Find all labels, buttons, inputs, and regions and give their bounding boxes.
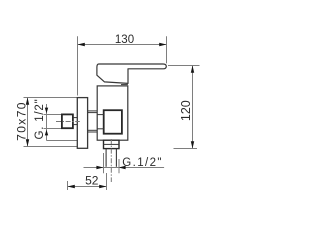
svg-text:120: 120 xyxy=(179,100,193,121)
dimension 52 line xyxy=(68,186,107,188)
dimension 130 arrow right xyxy=(159,43,166,46)
dimension G 1/2 left arrow up xyxy=(45,130,48,136)
inlet axis centerline xyxy=(56,121,80,123)
neck between flange and body bottom lines xyxy=(88,129,97,131)
cartridge inner rectangle xyxy=(104,110,122,134)
inlet square connector xyxy=(62,114,73,128)
wall flange plate xyxy=(77,98,87,149)
label G 1/2 bottom leader line xyxy=(84,167,165,169)
svg-text:70x70: 70x70 xyxy=(14,101,28,141)
handle lever with cartridge cap xyxy=(97,64,166,83)
body xyxy=(97,86,128,140)
outlet extension segment right xyxy=(118,159,120,173)
dimension G 1/2 left extension bottom xyxy=(44,128,62,130)
dimension G 1/2 left horizontal leader xyxy=(47,140,78,142)
dimension G 1/2 left line xyxy=(46,104,48,141)
svg-text:G.1/2": G.1/2" xyxy=(122,157,163,169)
dimension 52 extension left xyxy=(67,181,69,190)
dimension 70x70 arrow bottom xyxy=(26,139,29,146)
dimension 70x70 extension line bottom xyxy=(24,146,78,148)
dimension 70x70 extension line top xyxy=(24,97,78,99)
dimension 130 arrow left xyxy=(78,43,85,46)
outlet axis centerline vertical xyxy=(110,139,112,182)
dimension 130 line xyxy=(78,44,167,46)
stub lines body to cartridge xyxy=(97,114,104,116)
label G 1/2 bottom arrow left-pointing xyxy=(119,166,126,169)
outlet nut inner line xyxy=(104,143,120,145)
dimension 120 arrow bottom xyxy=(191,141,194,148)
outlet extension segment left xyxy=(103,153,105,173)
svg-text:52: 52 xyxy=(85,173,99,187)
dimension 120 extension line bottom xyxy=(174,148,198,150)
neck between flange and body top lines xyxy=(88,110,97,112)
svg-text:130: 130 xyxy=(115,34,134,46)
inlet stem lines xyxy=(73,117,77,119)
dimension 52 arrow left xyxy=(68,185,75,188)
dimension G 1/2 left extension top xyxy=(44,114,62,116)
outlet nut xyxy=(104,140,120,148)
label G 1/2 bottom arrow right-pointing xyxy=(96,166,103,169)
dimension 120 line xyxy=(192,66,194,149)
dimension 120 extension line top xyxy=(168,65,200,67)
dimension 52 arrow right xyxy=(99,185,106,188)
dimension 120 arrow top xyxy=(191,66,194,73)
body top ring line xyxy=(121,84,128,86)
dimension 52 extension right xyxy=(106,173,108,190)
dimension 130 extension line left xyxy=(77,36,79,95)
svg-text:G. 1/2": G. 1/2" xyxy=(34,98,46,139)
dimension 70x70 line xyxy=(27,98,29,147)
dimension G 1/2 left arrow down xyxy=(45,108,48,114)
outlet pipe lines xyxy=(105,149,107,167)
dimension 70x70 arrow top xyxy=(26,98,29,105)
dimension 130 extension line right xyxy=(166,36,168,63)
